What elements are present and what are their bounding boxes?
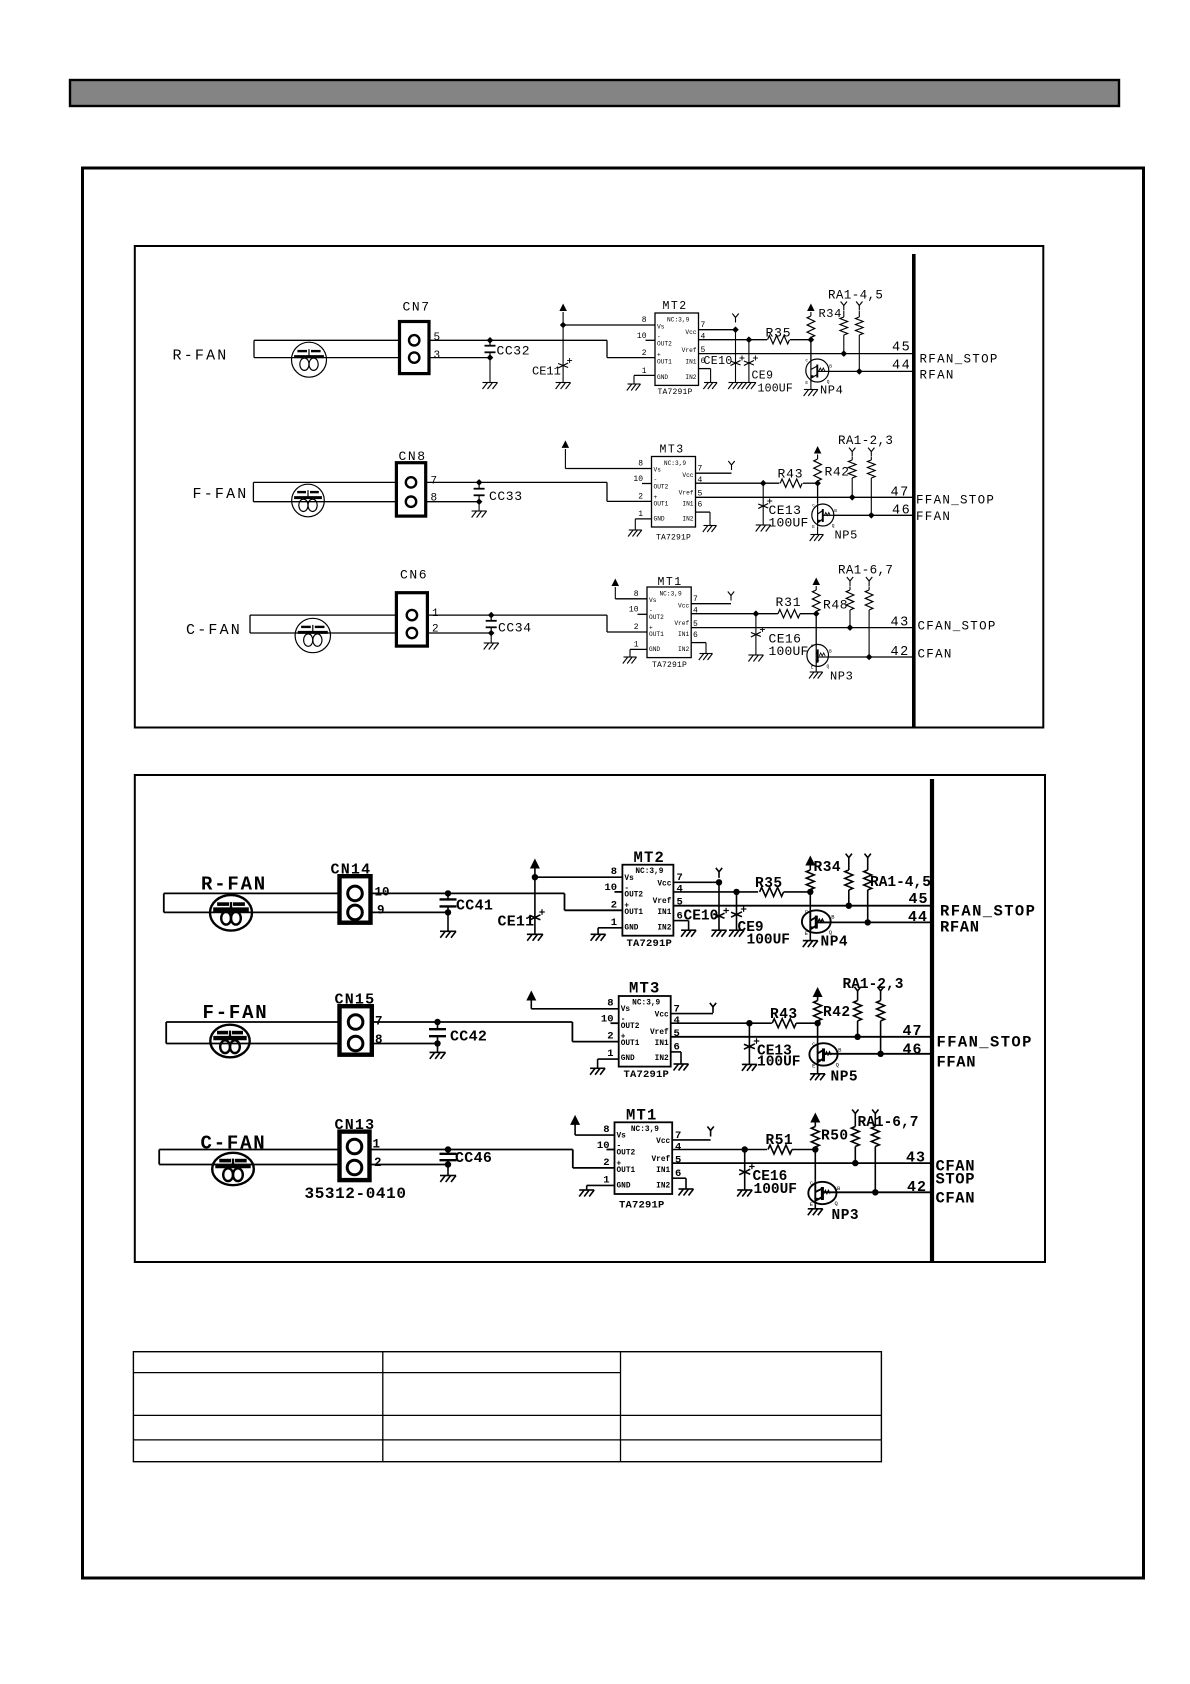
pin 9 CN14 [377, 904, 385, 918]
svg-text:C-FAN: C-FAN [201, 1133, 267, 1155]
net label CFAN bottom2 [936, 1190, 976, 1208]
label 43 bottom [906, 1150, 926, 1167]
junction CC46 bottom [445, 1161, 451, 1167]
junction CC33 top [476, 479, 483, 486]
svg-text:7: 7 [698, 465, 703, 474]
pin 7 CN15 [375, 1015, 383, 1029]
label C-FAN bottom [201, 1133, 267, 1155]
wire CN7-3 [429, 357, 490, 359]
ground CE10 [728, 383, 742, 390]
wire collector NP3 bottom [814, 1150, 816, 1182]
label R34 bottom [814, 860, 842, 876]
svg-text:47: 47 [891, 486, 910, 501]
resistor RA1-5 bottom [864, 864, 872, 923]
ground MT3 bottom right [674, 1064, 689, 1071]
wire GND MT3 bottom [598, 1059, 619, 1068]
fan motor C-FAN [295, 618, 330, 652]
wire collector NP5 bottom [817, 1023, 819, 1043]
power arrow R34 bottom [805, 856, 815, 871]
svg-text:1: 1 [607, 1048, 613, 1060]
svg-text:RFAN: RFAN [920, 369, 955, 383]
label CE9 bottom [738, 920, 764, 936]
resistor RA1-4 [840, 311, 848, 354]
resistor R43 bottom [772, 1019, 796, 1028]
svg-text:OUT1: OUT1 [621, 1040, 640, 1048]
label R43 bottom [770, 1007, 798, 1023]
label R42 [825, 465, 850, 480]
svg-text:NC:3,9: NC:3,9 [667, 317, 690, 324]
net label FFAN bottom [937, 1054, 977, 1072]
power arrow row1 bottom [530, 859, 540, 878]
wire CE16 vertical bottom [744, 1150, 746, 1190]
connector CN6 [396, 593, 427, 646]
pin 7 MT1 bottom [675, 1130, 681, 1142]
wire CN6-1 to OUT1 [427, 615, 647, 632]
svg-text:8: 8 [375, 1033, 383, 1047]
svg-text:42: 42 [891, 645, 910, 660]
svg-text:IN1: IN1 [655, 1040, 669, 1048]
junction Vcc row1 [732, 326, 739, 333]
wire emitter NP5 bottom [817, 1066, 819, 1074]
wire R-FAN loop [254, 340, 400, 357]
svg-text:IN2: IN2 [682, 516, 693, 523]
pin 1 MT2 [642, 367, 647, 376]
junction R34 [808, 336, 815, 343]
svg-text:R35: R35 [755, 876, 783, 892]
svg-text:FFAN_STOP: FFAN_STOP [937, 1034, 1033, 1052]
ground CE16 bottom [737, 1190, 752, 1197]
resistor RA1-5 [856, 311, 864, 371]
power arrow row3 [612, 579, 620, 599]
junction R34 bottom [807, 889, 813, 895]
wire R51 to junction bottom [792, 1149, 815, 1151]
svg-text:CN7: CN7 [403, 300, 431, 315]
connector CN13 [340, 1132, 370, 1181]
transistor NP4 [805, 359, 832, 387]
pin 2 CN13 [374, 1156, 382, 1170]
wire F-FAN loop [253, 482, 396, 501]
svg-text:42: 42 [907, 1179, 927, 1196]
resistor R42 bottom [814, 1001, 822, 1024]
svg-text:CC42: CC42 [450, 1029, 487, 1046]
junction CC34 bottom [488, 630, 495, 637]
label 45 row1 [892, 341, 911, 356]
svg-text:Vref: Vref [651, 1156, 670, 1164]
resistor RA1-2 [848, 457, 856, 497]
label R35 [766, 326, 792, 341]
pin 2 CN6 [432, 624, 439, 636]
pin 4 MT2 bottom [677, 884, 683, 896]
svg-text:4: 4 [677, 884, 683, 896]
wire R-FAN loop bottom [164, 893, 340, 912]
junction CE9 [746, 336, 753, 343]
wire GND MT2 [634, 375, 655, 383]
pin 8 CN15 [375, 1033, 383, 1047]
fan motor C-FAN bottom [212, 1153, 254, 1185]
junction RA1-6 [847, 624, 854, 631]
resistor RA1-6 [846, 587, 854, 628]
resistor RA1-3 bottom [877, 997, 885, 1054]
ground CE13 bottom [742, 1064, 757, 1071]
capacitor CE16 bottom [739, 1164, 754, 1175]
capacitor CC46 [440, 1150, 457, 1176]
svg-text:NC:3,9: NC:3,9 [632, 999, 660, 1007]
svg-text:10: 10 [629, 606, 639, 615]
svg-text:100UF: 100UF [754, 1182, 798, 1198]
svg-text:CC41: CC41 [456, 898, 493, 915]
net stub Y row1 bottom [716, 868, 722, 878]
svg-text:7: 7 [693, 595, 698, 604]
svg-text:OUT2: OUT2 [617, 1150, 636, 1158]
svg-text:OUT2: OUT2 [654, 483, 669, 490]
wire net 46 [834, 514, 914, 516]
schematic frame 2 (bottom) [135, 775, 1045, 1262]
ground CC42 [430, 1052, 446, 1059]
svg-text:CC32: CC32 [497, 344, 531, 359]
svg-text:2: 2 [603, 1157, 609, 1169]
ground MT2 right [703, 383, 717, 390]
svg-text:2: 2 [607, 1031, 613, 1043]
wire CN13-2 [370, 1164, 449, 1166]
junction CC32 bottom [487, 354, 494, 361]
ground NP5 [810, 535, 824, 542]
svg-text:F-FAN: F-FAN [193, 486, 249, 503]
svg-text:FFAN_STOP: FFAN_STOP [916, 494, 995, 508]
wire C-FAN loop bottom [159, 1150, 339, 1165]
wire emitter NP3 [815, 666, 817, 671]
wire GND MT2 bottom [598, 928, 622, 934]
power arrow R34 [807, 304, 815, 317]
capacitor CC33 [474, 482, 485, 510]
svg-text:CE10: CE10 [684, 909, 719, 925]
transistor NP3 [807, 644, 832, 671]
capacitor CE11 bottom [529, 909, 544, 920]
power arrow R42 bottom [813, 987, 823, 1001]
svg-text:Vcc: Vcc [655, 1012, 669, 1020]
svg-text:5: 5 [674, 1028, 680, 1040]
svg-text:RA1-6,7: RA1-6,7 [858, 1115, 919, 1131]
label MT2 [663, 300, 688, 313]
op-amp MT3 bottom (TA7291P) [619, 996, 671, 1067]
stub OUT2 MT3 bottom [611, 1022, 619, 1024]
svg-text:GND: GND [649, 646, 660, 653]
capacitor CE10 bottom [714, 908, 729, 919]
svg-text:R-FAN: R-FAN [201, 874, 267, 896]
label 47 row2 [891, 486, 910, 501]
label MT1 bottom [626, 1107, 658, 1125]
label RA1-2,3 bottom [843, 977, 904, 993]
capacitor CE13 bottom [744, 1038, 759, 1049]
label R43 [778, 467, 804, 482]
label 100UF row3 [769, 644, 809, 659]
net label RFAN [920, 369, 955, 383]
pin 8 CN8 [431, 493, 438, 505]
svg-text:100UF: 100UF [769, 516, 809, 531]
ground NP4 bottom [803, 941, 818, 948]
wire GND MT1 [630, 649, 647, 656]
bus line schematic 2 [930, 779, 934, 1262]
power arrow R48 [813, 578, 821, 591]
pin 7 CN8 [431, 476, 438, 488]
wire collector NP4 [810, 340, 812, 360]
fan motor F-FAN bottom [210, 1025, 249, 1058]
svg-text:RA1-6,7: RA1-6,7 [838, 564, 893, 578]
junction R48 [813, 610, 820, 617]
svg-text:8: 8 [642, 316, 647, 325]
svg-text:NC:3,9: NC:3,9 [631, 1126, 659, 1134]
svg-text:Vs: Vs [624, 875, 634, 883]
svg-text:RA1-4,5: RA1-4,5 [828, 289, 883, 303]
wire emitter NP3 bottom [814, 1204, 816, 1208]
svg-text:GND: GND [654, 516, 665, 523]
wire CE13 vertical [762, 483, 764, 524]
svg-text:MT2: MT2 [634, 849, 666, 867]
ground CE11 [556, 383, 571, 390]
svg-text:6: 6 [698, 501, 703, 510]
svg-text:2: 2 [638, 493, 643, 502]
svg-text:R31: R31 [776, 595, 802, 610]
ground CE10 bottom [712, 930, 727, 937]
wire Vs row3 bottom [575, 1134, 614, 1136]
junction R42 bottom [814, 1020, 820, 1026]
net stub Y RA1-2 bottom [854, 987, 860, 997]
svg-text:Vcc: Vcc [678, 603, 689, 610]
label 45 bottom [909, 891, 929, 908]
pin 4 MT1 bottom [675, 1142, 681, 1154]
svg-text:FFAN: FFAN [916, 510, 951, 524]
wire net 44 bottom [831, 921, 932, 923]
wire pin4 row3 bottom [672, 1149, 767, 1151]
wire Vcc row2 bottom [671, 1013, 713, 1015]
label 47 bottom [903, 1023, 923, 1040]
svg-text:E: E [812, 524, 815, 530]
svg-text:2: 2 [611, 900, 617, 912]
power arrow row1 [559, 304, 567, 326]
svg-text:CE11: CE11 [532, 365, 561, 379]
ground MT1 right [699, 654, 713, 661]
junction RA1-7 bottom [872, 1189, 878, 1195]
pin 6 MT3 bottom [674, 1042, 680, 1054]
label CC33 [489, 489, 523, 504]
junction Vs row1 bottom [532, 874, 538, 880]
connector CN7 [400, 322, 430, 374]
ground NP3 bottom [808, 1209, 823, 1216]
wire net 43 bottom [672, 1162, 932, 1164]
svg-text:45: 45 [909, 891, 929, 908]
svg-text:CN15: CN15 [335, 992, 376, 1009]
pin 7 MT1 [693, 595, 698, 604]
svg-text:OUT1: OUT1 [624, 909, 643, 917]
svg-text:Q: Q [827, 663, 830, 669]
pin 2 MT2 [642, 349, 647, 358]
resistor R31 [778, 610, 800, 618]
svg-text:2: 2 [634, 623, 639, 632]
wire R43 to junction bottom [796, 1022, 817, 1024]
gray title bar [70, 80, 1119, 106]
pin 10 MT2 [637, 332, 647, 341]
junction CE9 bottom [733, 889, 739, 895]
op-amp MT3 (TA7291P) [652, 457, 696, 528]
svg-text:8: 8 [634, 590, 639, 599]
svg-text:RA1-2,3: RA1-2,3 [838, 434, 893, 448]
svg-text:100UF: 100UF [758, 383, 794, 396]
label CN6 [400, 568, 428, 583]
svg-text:6: 6 [693, 631, 698, 640]
ground NP5 bottom [810, 1074, 825, 1081]
wire IN2 MT2 [699, 369, 711, 382]
svg-text:Vref: Vref [650, 1029, 669, 1037]
wire IN2 MT1 [691, 643, 706, 653]
svg-text:MT3: MT3 [629, 980, 661, 998]
svg-text:4: 4 [675, 1142, 681, 1154]
wire net 47 [696, 496, 914, 498]
label 42 row3 [891, 645, 910, 660]
resistor RA1-3 [868, 457, 876, 515]
svg-text:R34: R34 [819, 307, 842, 321]
svg-text:Vref: Vref [674, 620, 689, 627]
wire collector NP4 bottom [809, 892, 811, 910]
svg-text:-: - [657, 334, 661, 341]
junction CC41 bottom [445, 909, 451, 915]
label CC41 [456, 898, 493, 915]
wire CE11 vertical [562, 325, 564, 382]
label 43 row3 [891, 616, 910, 631]
fan motor R-FAN [292, 342, 327, 377]
svg-text:B: B [834, 508, 837, 514]
net label FFAN_STOP [916, 494, 995, 508]
svg-text:OUT1: OUT1 [617, 1167, 636, 1175]
svg-text:B: B [829, 364, 832, 370]
net label RFAN_STOP bottom [940, 903, 1036, 921]
ground CE13 [756, 525, 771, 532]
pin 7 MT2 bottom [677, 872, 683, 884]
wire IN2 MT3 bottom [671, 1052, 681, 1064]
svg-text:10: 10 [637, 332, 647, 341]
label CC32 [497, 344, 531, 359]
label CN15 [335, 992, 376, 1009]
wire CN7-5 to OUT1 [429, 340, 655, 357]
pin 7 MT3 [698, 465, 703, 474]
label CE10 bottom [684, 909, 719, 925]
svg-text:FFAN: FFAN [937, 1054, 977, 1072]
svg-text:RFAN_STOP: RFAN_STOP [920, 353, 999, 367]
net stub Y RA1-2 [849, 448, 855, 457]
svg-text:IN2: IN2 [685, 374, 696, 381]
connector CN8 [396, 463, 425, 516]
wire net 45 [699, 353, 914, 355]
svg-text:MT2: MT2 [663, 300, 688, 313]
net label CFAN bottom1 [936, 1158, 976, 1176]
svg-text:MT1: MT1 [658, 576, 683, 589]
wire CE16 vertical [755, 614, 757, 655]
stub OUT2 MT1 bottom [607, 1149, 615, 1151]
svg-text:c: c [805, 359, 808, 364]
svg-text:NP4: NP4 [820, 384, 843, 398]
wire GND MT1 bottom [587, 1185, 615, 1189]
svg-text:7: 7 [431, 476, 438, 488]
wire IN2 MT1 bottom [672, 1178, 686, 1188]
op-amp MT1 bottom (TA7291P) [615, 1122, 673, 1194]
svg-text:TA7291P: TA7291P [652, 661, 687, 670]
wire C-FAN loop [250, 615, 396, 633]
svg-text:B: B [829, 648, 832, 654]
wire Vcc row1 [699, 329, 736, 331]
wire CE11 vertical bottom [534, 877, 536, 934]
wire CE10 vertical bottom [718, 882, 720, 929]
label R35 bottom [755, 876, 783, 892]
label NP5 [835, 529, 858, 543]
svg-text:GND: GND [657, 374, 668, 381]
pin 4 MT3 bottom [674, 1015, 680, 1027]
resistor RA1-6 bottom [851, 1119, 859, 1163]
pin 8 MT2 bottom [611, 866, 617, 878]
svg-text:Vs: Vs [657, 324, 665, 331]
svg-text:4: 4 [674, 1015, 680, 1027]
wire CN15-7 to OUT1 [372, 1022, 619, 1042]
svg-text:2: 2 [642, 349, 647, 358]
wire Vcc row1 bottom [673, 881, 719, 883]
svg-text:OUT2: OUT2 [657, 341, 672, 348]
ground CE16 [748, 655, 763, 662]
net stub Y RA1-7 [866, 577, 872, 586]
svg-text:CC46: CC46 [455, 1150, 492, 1167]
label TA7291P MT2 bottom [627, 938, 673, 950]
svg-text:NP3: NP3 [832, 1208, 860, 1224]
capacitor CC41 [440, 893, 457, 930]
ground MT3 bottom left [590, 1068, 605, 1075]
svg-text:c: c [811, 644, 814, 649]
wire GND MT3 [635, 519, 651, 530]
junction Vcc row1 bottom [716, 879, 722, 885]
svg-text:Vcc: Vcc [657, 880, 671, 888]
svg-text:1: 1 [642, 367, 647, 376]
svg-text:10: 10 [633, 475, 643, 484]
label NP3 bottom [832, 1208, 860, 1224]
net stub Y RA1-4 bottom [846, 854, 852, 864]
transistor NP3 bottom [808, 1179, 841, 1208]
net label FFAN [916, 510, 951, 524]
svg-text:c: c [805, 908, 808, 915]
pin 8 MT2 [642, 316, 647, 325]
label CN13 [335, 1117, 376, 1134]
wire pin4 row2 [696, 482, 780, 484]
capacitor CC32 [485, 340, 496, 382]
wire net 43 [691, 627, 914, 629]
net stub Y row3 bottom [707, 1127, 713, 1137]
label CC46 [455, 1150, 492, 1167]
label C-FAN [186, 622, 242, 639]
stub OUT2 MT3 [642, 483, 652, 485]
fan motor R-FAN bottom [210, 895, 252, 931]
junction RA1-3 [868, 512, 875, 519]
junction RA1-6 bottom [852, 1160, 858, 1166]
wire net 46 bottom [838, 1053, 932, 1055]
label NP4 [820, 384, 843, 398]
wire R35 to junction bottom [784, 891, 811, 893]
outer page border [83, 168, 1144, 1578]
resistor RA1-4 bottom [845, 864, 853, 906]
pin 10 MT3 bottom [601, 1014, 614, 1026]
label 42 bottom [907, 1179, 927, 1196]
pin 6 MT1 bottom [675, 1168, 681, 1180]
svg-text:C-FAN: C-FAN [186, 622, 242, 639]
power arrow R50 bottom [810, 1113, 820, 1127]
wire CN15-8 [372, 1043, 438, 1045]
power arrow row3 bottom [570, 1115, 580, 1135]
label 100UF row3 bottom [754, 1182, 798, 1198]
pin 1 MT1 bottom [603, 1175, 609, 1187]
resistor R48 [812, 590, 820, 614]
